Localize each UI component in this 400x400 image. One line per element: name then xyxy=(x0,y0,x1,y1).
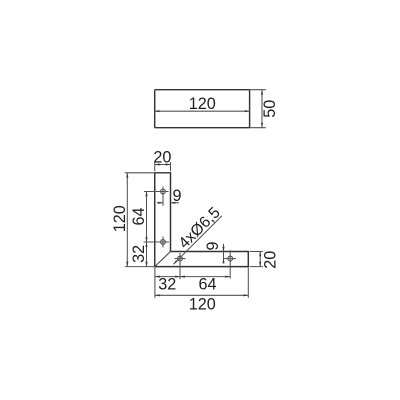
svg-text:9: 9 xyxy=(172,187,181,205)
svg-text:64: 64 xyxy=(130,207,148,225)
svg-text:20: 20 xyxy=(153,148,171,166)
svg-text:120: 120 xyxy=(189,95,216,113)
svg-text:120: 120 xyxy=(189,295,216,313)
svg-text:32: 32 xyxy=(130,245,148,263)
svg-text:20: 20 xyxy=(261,251,279,269)
svg-text:50: 50 xyxy=(261,100,279,118)
svg-text:32: 32 xyxy=(158,276,176,294)
svg-text:9: 9 xyxy=(204,241,222,250)
svg-text:120: 120 xyxy=(111,205,129,232)
svg-text:64: 64 xyxy=(198,276,216,294)
